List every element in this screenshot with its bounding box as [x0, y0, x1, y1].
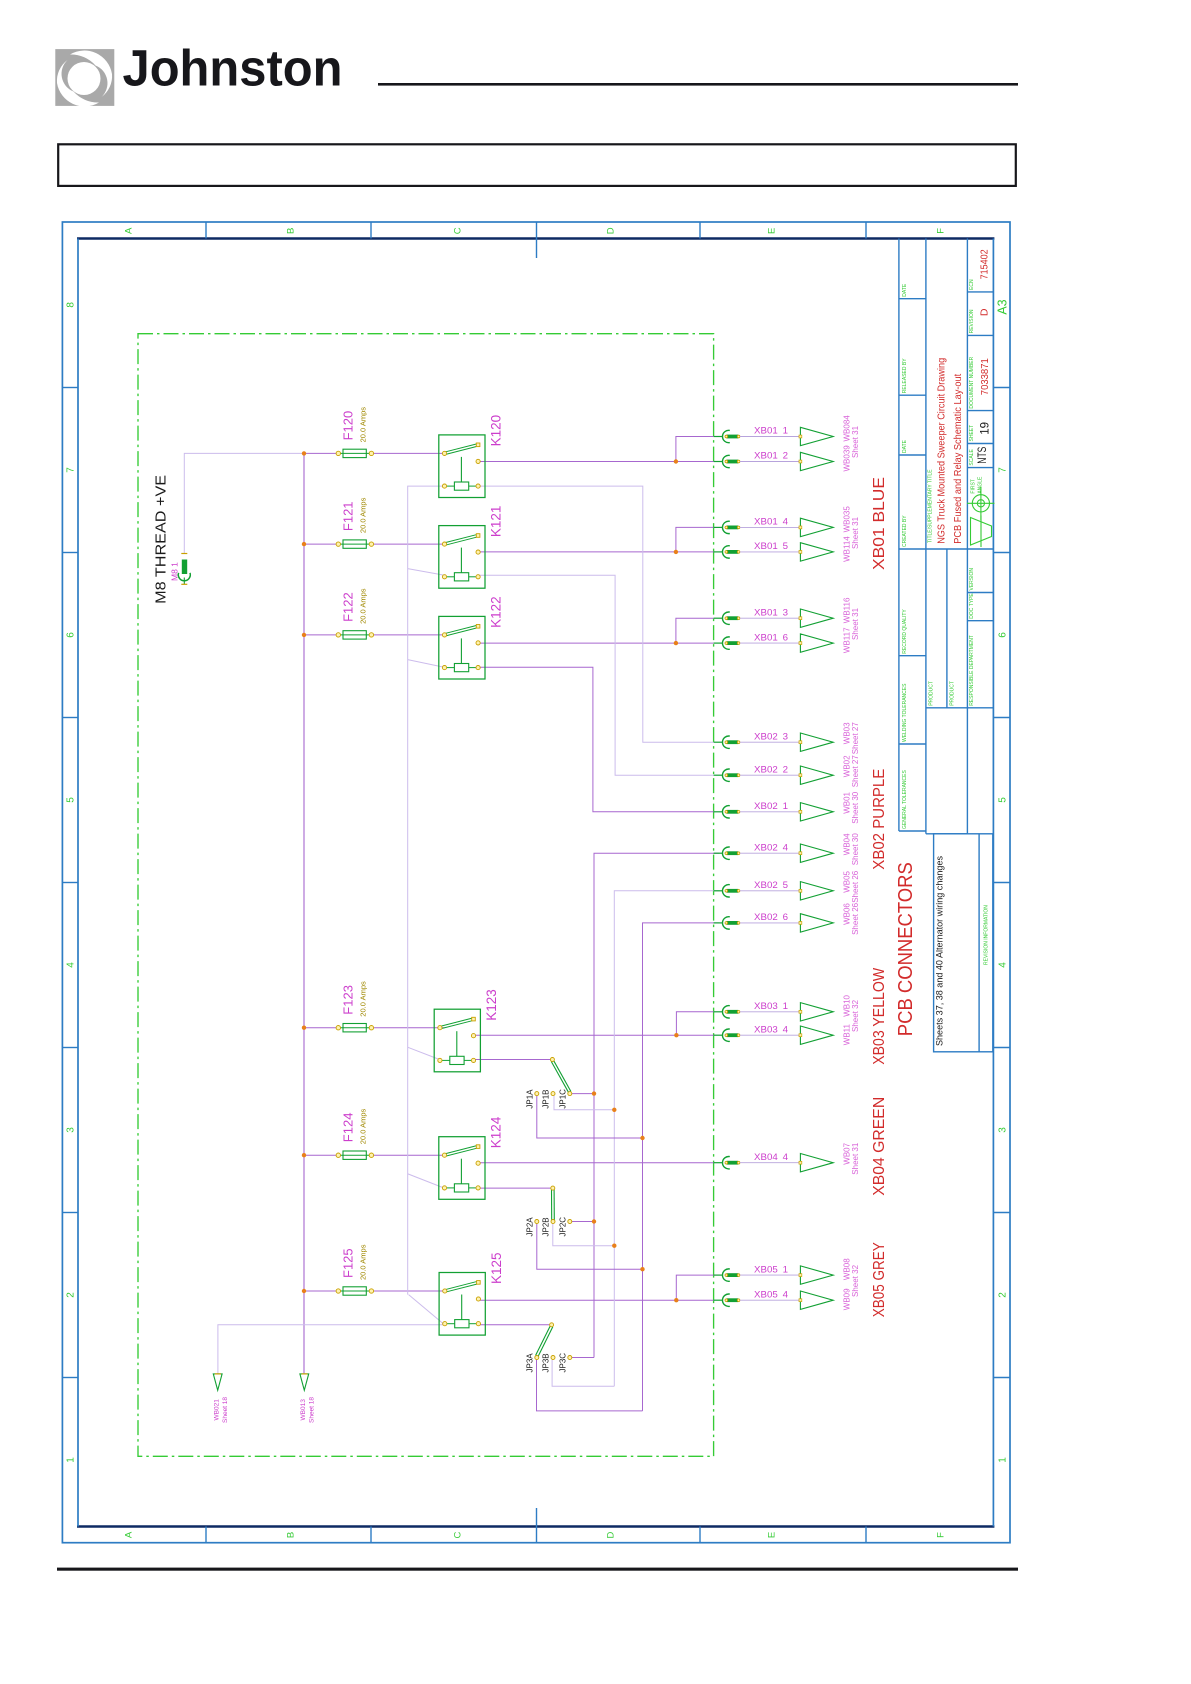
svg-text:20.0 Amps: 20.0 Amps: [359, 407, 368, 443]
svg-text:WB013: WB013: [300, 1399, 307, 1421]
Johnston logo icon: [55, 49, 114, 106]
net C vertical to XB02 4: [594, 853, 720, 1357]
svg-text:6: 6: [66, 632, 77, 638]
svg-text:F123: F123: [341, 985, 356, 1015]
svg-text:JP2A: JP2A: [525, 1217, 534, 1237]
relay K123: [434, 989, 499, 1072]
wire K120 output to XB01 1/2: [478, 461, 713, 463]
svg-text:XB01 6: XB01 6: [754, 632, 788, 643]
svg-text:XB03 1: XB03 1: [754, 1001, 788, 1012]
svg-text:20.0 Amps: 20.0 Amps: [359, 497, 368, 533]
svg-text:JP2C: JP2C: [558, 1217, 567, 1237]
connector pin XB01 4: [714, 517, 834, 537]
svg-text:RELEASED BY: RELEASED BY: [902, 358, 908, 393]
svg-text:20.0 Amps: 20.0 Amps: [359, 981, 368, 1017]
jumper JP2: [525, 1186, 572, 1236]
svg-text:1: 1: [998, 1457, 1009, 1463]
svg-text:D: D: [979, 308, 991, 316]
relay K120: [439, 415, 504, 498]
svg-text:REVISION: REVISION: [969, 309, 975, 333]
svg-text:4: 4: [66, 962, 77, 968]
svg-text:7: 7: [998, 467, 1009, 473]
svg-text:WELDING TOLERANCES: WELDING TOLERANCES: [902, 683, 908, 742]
wire K121 output to XB01 4/5: [478, 551, 713, 553]
arrow WB013 to sheet 18: [300, 1374, 316, 1423]
connector pin XB02 2: [714, 764, 834, 784]
svg-text:Sheet 31: Sheet 31: [851, 607, 860, 640]
svg-text:A: A: [124, 227, 135, 234]
svg-text:XB02 4: XB02 4: [754, 842, 788, 853]
connector pin XB02 4: [714, 842, 834, 862]
svg-text:GENERAL TOLERANCES: GENERAL TOLERANCES: [902, 770, 908, 829]
svg-text:JP3B: JP3B: [542, 1353, 551, 1372]
svg-text:FIRST: FIRST: [971, 479, 977, 493]
connector pin XB02 5: [714, 880, 834, 900]
svg-text:6: 6: [998, 632, 1009, 638]
svg-text:F: F: [936, 1532, 947, 1538]
connector pin XB01 5: [714, 541, 834, 561]
svg-text:B: B: [286, 228, 297, 234]
svg-text:3: 3: [998, 1127, 1009, 1133]
svg-text:8: 8: [66, 302, 77, 308]
wire K120 coil to XB02 3: [478, 486, 713, 742]
svg-text:Sheet 30: Sheet 30: [851, 791, 860, 824]
svg-text:PCB CONNECTORS: PCB CONNECTORS: [895, 862, 917, 1036]
svg-text:PRODUCT: PRODUCT: [929, 681, 935, 706]
svg-text:20.0 Amps: 20.0 Amps: [359, 588, 368, 624]
svg-text:K121: K121: [489, 506, 504, 538]
svg-text:Sheet 32: Sheet 32: [851, 1264, 860, 1297]
svg-text:Johnston: Johnston: [123, 40, 343, 97]
wire K125 coil to WB021 arrow: [218, 1325, 445, 1374]
svg-text:WB021: WB021: [214, 1399, 221, 1421]
connector pin XB01 1: [714, 426, 834, 446]
fuse F120: [336, 407, 374, 458]
svg-text:F122: F122: [341, 592, 356, 622]
JP3 wires: [572, 1357, 594, 1359]
connector pin XB01 3: [714, 607, 834, 627]
svg-text:XB02 5: XB02 5: [754, 880, 788, 891]
svg-text:XB02 3: XB02 3: [754, 731, 788, 742]
svg-text:JP2B: JP2B: [542, 1217, 551, 1236]
wire K122 output to XB01 3/6: [478, 642, 713, 644]
coil chain wire: [408, 486, 445, 1295]
svg-text:XB01 2: XB01 2: [754, 451, 788, 462]
drawing sheet inner border: [77, 237, 994, 239]
svg-text:Sheets 37, 38 and 40 Alternato: Sheets 37, 38 and 40 Alternator wiring c…: [935, 856, 946, 1046]
grid reference numbers: [66, 302, 1009, 1463]
connector pin XB05 4: [714, 1289, 834, 1309]
svg-text:ECN: ECN: [969, 279, 975, 290]
svg-text:E: E: [767, 1532, 778, 1538]
svg-text:M8 1: M8 1: [170, 562, 180, 581]
svg-text:DOCUMENT NUMBER: DOCUMENT NUMBER: [969, 356, 975, 408]
svg-text:Sheet 31: Sheet 31: [851, 425, 860, 458]
svg-text:Sheet 27: Sheet 27: [851, 722, 860, 755]
wire K123 output to XB03 1/4: [474, 1034, 714, 1036]
coil chain taps: [408, 569, 445, 1325]
connector pin XB02 1: [714, 801, 834, 821]
revision information box: [934, 834, 993, 1052]
svg-text:7033871: 7033871: [979, 358, 991, 395]
node M8 supply wire: [184, 453, 304, 553]
svg-text:Sheet 26: Sheet 26: [851, 902, 860, 935]
svg-text:B: B: [286, 1532, 297, 1538]
svg-text:JP1C: JP1C: [558, 1089, 567, 1109]
title box: [58, 144, 1016, 186]
svg-text:XB05 4: XB05 4: [754, 1289, 788, 1300]
svg-text:TITLE/SUPPLEMENTARY TITLE: TITLE/SUPPLEMENTARY TITLE: [928, 469, 934, 543]
svg-text:D: D: [606, 1531, 617, 1538]
net A vertical to XB02 6: [643, 923, 720, 1411]
svg-text:3: 3: [66, 1127, 77, 1133]
svg-text:C: C: [453, 227, 464, 234]
svg-text:DATE: DATE: [902, 283, 908, 297]
first angle projection symbol: [967, 487, 995, 548]
svg-text:XB04 4: XB04 4: [754, 1152, 788, 1163]
fuse branch wires: [304, 453, 445, 1291]
header rule: [378, 83, 1018, 86]
svg-text:SCALE: SCALE: [969, 449, 975, 466]
svg-text:PRODUCT: PRODUCT: [950, 681, 956, 706]
svg-text:M8 THREAD +VE: M8 THREAD +VE: [153, 475, 170, 604]
svg-text:F120: F120: [341, 411, 356, 441]
svg-text:K124: K124: [489, 1116, 504, 1148]
fuse F123: [336, 981, 374, 1032]
drawing sheet outer frame: [62, 222, 1010, 1543]
arrow WB021 to sheet 18: [213, 1374, 229, 1423]
svg-text:K123: K123: [484, 989, 499, 1021]
connector pin XB04 4: [714, 1152, 834, 1172]
svg-text:Sheet 27: Sheet 27: [851, 755, 860, 788]
relay K122: [439, 596, 504, 679]
svg-text:F125: F125: [341, 1248, 356, 1278]
svg-text:A3: A3: [996, 299, 1010, 314]
svg-text:XB05 GREY: XB05 GREY: [871, 1242, 888, 1317]
svg-text:XB01 1: XB01 1: [754, 426, 788, 437]
svg-text:XB01 BLUE: XB01 BLUE: [871, 477, 888, 570]
JP2 wires: [572, 1221, 594, 1223]
svg-text:JP1B: JP1B: [542, 1089, 551, 1108]
fuse F124: [336, 1109, 374, 1160]
svg-text:Sheet 18: Sheet 18: [309, 1397, 316, 1423]
connector pin XB01 2: [714, 451, 834, 471]
svg-text:Sheet 26: Sheet 26: [851, 870, 860, 903]
svg-text:D: D: [606, 227, 617, 234]
svg-text:XB04 GREEN: XB04 GREEN: [871, 1097, 888, 1196]
svg-text:Sheet 30: Sheet 30: [851, 833, 860, 866]
svg-text:K122: K122: [489, 596, 504, 628]
svg-text:XB01 5: XB01 5: [754, 541, 788, 552]
wire K125 coil to JP3: [479, 1324, 550, 1326]
title block grid: [899, 239, 994, 834]
PCB board outline: [138, 334, 714, 1457]
svg-text:CREATED BY: CREATED BY: [902, 515, 908, 547]
svg-text:F121: F121: [341, 501, 356, 531]
terminal M8: [178, 554, 190, 585]
svg-text:715402: 715402: [979, 249, 991, 279]
net B vertical to XB02 5: [614, 891, 719, 1386]
svg-text:REVISION INFORMATION: REVISION INFORMATION: [984, 905, 990, 965]
svg-text:JP3A: JP3A: [525, 1353, 534, 1373]
bus +VE: [303, 453, 305, 1373]
svg-text:VERSION: VERSION: [969, 568, 975, 591]
footer rule: [57, 1568, 1018, 1571]
svg-text:XB02 1: XB02 1: [754, 801, 788, 812]
connector pin XB02 3: [714, 731, 834, 751]
jumper JP3: [525, 1323, 572, 1373]
svg-text:20.0 Amps: 20.0 Amps: [359, 1109, 368, 1145]
svg-text:SHEET: SHEET: [969, 425, 975, 442]
junction dots: [302, 451, 679, 1302]
connector pin XB02 6: [714, 912, 834, 932]
svg-text:XB03 4: XB03 4: [754, 1024, 788, 1035]
grid reference letters: [124, 227, 947, 1538]
svg-text:Sheet 18: Sheet 18: [222, 1397, 229, 1423]
svg-text:F: F: [936, 228, 947, 234]
svg-text:PCB Fused and Relay Schematic: PCB Fused and Relay Schematic Lay-out: [953, 374, 964, 544]
relay K125: [439, 1252, 504, 1335]
svg-text:JP3C: JP3C: [558, 1353, 567, 1373]
svg-text:DOC TYPE: DOC TYPE: [969, 593, 975, 619]
svg-text:2: 2: [998, 1292, 1009, 1298]
grid band dividers: [62, 222, 1010, 1543]
JP1 wires: [572, 1093, 594, 1095]
fuse F121: [336, 497, 374, 548]
connector pin XB05 1: [714, 1264, 834, 1284]
svg-text:RESPONSIBLE DEPARTMENT: RESPONSIBLE DEPARTMENT: [969, 635, 975, 706]
connector pin XB03 4: [714, 1024, 834, 1044]
title block labels: [902, 279, 990, 965]
svg-text:E: E: [767, 228, 778, 234]
wire K122 coil to XB02 1: [478, 667, 713, 812]
wire K121 coil to XB02 2: [478, 575, 713, 775]
connector pin XB03 1: [714, 1001, 834, 1021]
wire name labels: [843, 415, 861, 1310]
svg-text:Sheet 32: Sheet 32: [851, 999, 860, 1032]
svg-text:K120: K120: [489, 415, 504, 447]
fuse F125: [336, 1244, 374, 1295]
svg-text:NTS: NTS: [977, 446, 989, 463]
svg-text:7: 7: [66, 467, 77, 473]
svg-text:XB01 4: XB01 4: [754, 517, 788, 528]
svg-text:2: 2: [66, 1292, 77, 1298]
relay K121: [439, 506, 504, 589]
fuse F122: [336, 588, 374, 639]
svg-text:C: C: [453, 1531, 464, 1538]
svg-text:4: 4: [998, 962, 1009, 968]
wire K124 coil to JP2: [478, 1187, 550, 1189]
svg-text:RECORD QUALITY: RECORD QUALITY: [902, 609, 908, 654]
wire K125 output to XB05 1/4: [479, 1299, 714, 1301]
svg-text:Sheet 31: Sheet 31: [851, 1142, 860, 1175]
svg-text:XB05 1: XB05 1: [754, 1264, 788, 1275]
wire K124 output to XB04 4: [478, 1162, 713, 1164]
svg-text:XB02 6: XB02 6: [754, 912, 788, 923]
svg-text:NGS Truck Mounted Sweeper Circ: NGS Truck Mounted Sweeper Circuit Drawin…: [937, 358, 948, 544]
jumper JP1: [525, 1058, 572, 1109]
svg-text:20.0 Amps: 20.0 Amps: [359, 1244, 368, 1280]
svg-text:XB01 3: XB01 3: [754, 607, 788, 618]
svg-text:Sheet 31: Sheet 31: [851, 516, 860, 549]
svg-text:F124: F124: [341, 1113, 356, 1143]
svg-text:5: 5: [66, 797, 77, 803]
svg-text:1: 1: [66, 1457, 77, 1463]
svg-text:DATE: DATE: [902, 439, 908, 453]
svg-text:A: A: [124, 1531, 135, 1538]
connector pin XB01 6: [714, 632, 834, 652]
svg-text:19: 19: [980, 422, 992, 435]
wire K123 coil to JP1: [474, 1059, 553, 1061]
svg-text:XB03 YELLOW: XB03 YELLOW: [871, 967, 888, 1065]
svg-text:JP1A: JP1A: [525, 1089, 534, 1109]
svg-text:XB02 2: XB02 2: [754, 764, 788, 775]
svg-text:K125: K125: [489, 1252, 504, 1284]
svg-text:XB02 PURPLE: XB02 PURPLE: [871, 769, 888, 870]
relay K124: [439, 1116, 504, 1199]
svg-text:5: 5: [998, 797, 1009, 803]
